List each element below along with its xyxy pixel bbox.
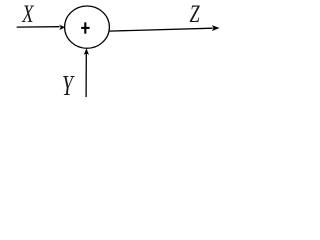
wire X input [17,26,60,28]
summing junction circle [65,6,110,48]
svg-text:Z: Z [190,0,201,27]
wire Z output [109,28,212,31]
arrowhead Z output [212,25,220,31]
label Z [190,0,201,27]
svg-text:Y: Y [62,70,75,100]
arrowhead X input [59,25,65,30]
svg-text:X: X [21,0,35,28]
label X [21,0,35,28]
plus sign [81,22,89,33]
arrowhead Y input [84,48,89,55]
label Y [62,70,75,101]
wire Y input [85,54,87,98]
